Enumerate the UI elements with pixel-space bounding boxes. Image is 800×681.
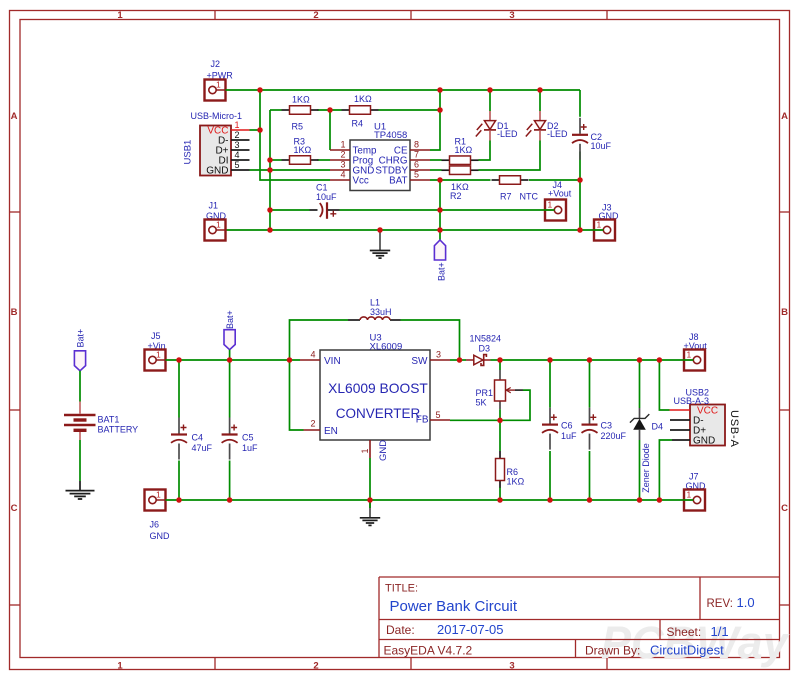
- wire: [639, 440, 641, 500]
- wire: [178, 360, 180, 418]
- svg-text:-LED: -LED: [547, 129, 568, 139]
- wire: [450, 359, 466, 361]
- resistor R1: [442, 156, 479, 165]
- svg-text:C: C: [781, 503, 788, 514]
- svg-text:USB-A: USB-A: [728, 410, 740, 448]
- junction: [547, 497, 553, 503]
- junction: [227, 497, 233, 503]
- junction: [437, 177, 443, 183]
- wire: [579, 152, 581, 231]
- svg-text:BATTERY: BATTERY: [98, 425, 139, 435]
- wire: [226, 89, 581, 91]
- svg-text:5: 5: [414, 170, 419, 180]
- svg-text:4: 4: [340, 170, 345, 180]
- svg-text:C3: C3: [601, 421, 613, 431]
- svg-text:1.0: 1.0: [737, 595, 755, 610]
- svg-text:J6: J6: [150, 520, 160, 530]
- svg-text:2: 2: [235, 130, 240, 140]
- wire: [250, 169, 331, 171]
- wire: [270, 159, 282, 161]
- junction: [497, 418, 503, 424]
- svg-text:R4: R4: [352, 119, 364, 129]
- svg-text:1: 1: [216, 220, 221, 230]
- net flag Bat+: [224, 310, 235, 349]
- junction: [657, 357, 663, 363]
- IC U3 XL6009: [300, 333, 450, 462]
- svg-text:CircuitDigest: CircuitDigest: [650, 643, 724, 658]
- svg-text:R7: R7: [500, 192, 512, 202]
- svg-text:1: 1: [548, 200, 553, 210]
- junction: [577, 227, 583, 233]
- ground: [66, 481, 95, 499]
- connector J8: [683, 350, 705, 371]
- wire: [401, 320, 460, 360]
- resistor R4: [342, 106, 379, 115]
- svg-text:10uF: 10uF: [316, 192, 337, 202]
- svg-text:1: 1: [216, 80, 221, 90]
- junction: [497, 357, 503, 363]
- svg-text:C1: C1: [316, 183, 328, 193]
- junction: [267, 167, 273, 173]
- svg-text:1: 1: [156, 490, 161, 500]
- svg-text:R2: R2: [450, 191, 462, 201]
- wire: [270, 209, 310, 211]
- svg-text:3: 3: [436, 350, 441, 360]
- wire: [226, 229, 595, 231]
- wire: [549, 451, 551, 500]
- net flag Bat+: [434, 240, 446, 281]
- svg-text:1N5824: 1N5824: [470, 334, 502, 344]
- svg-text:J2: J2: [211, 59, 221, 69]
- svg-text:5: 5: [436, 410, 441, 420]
- wire: [659, 360, 669, 410]
- svg-text:GND: GND: [693, 436, 715, 447]
- connector J1: [205, 220, 226, 241]
- svg-text:Drawn By:: Drawn By:: [585, 644, 640, 658]
- junction: [176, 497, 182, 503]
- wire: [659, 440, 672, 500]
- wire: [589, 451, 591, 500]
- svg-text:Date:: Date:: [386, 623, 415, 637]
- svg-text:1: 1: [360, 448, 370, 453]
- svg-text:4: 4: [235, 150, 240, 160]
- svg-text:1: 1: [156, 350, 161, 360]
- svg-text:1: 1: [340, 140, 345, 150]
- svg-text:GND: GND: [378, 440, 389, 461]
- svg-text:R5: R5: [292, 122, 304, 132]
- svg-text:C4: C4: [192, 433, 204, 443]
- capacitor C2: [572, 118, 612, 160]
- svg-text:VIN: VIN: [324, 356, 341, 367]
- svg-text:GND: GND: [206, 165, 228, 176]
- svg-text:J1: J1: [209, 201, 219, 211]
- connector USB2 USB-A-3: [670, 387, 741, 447]
- svg-text:7: 7: [414, 150, 419, 160]
- svg-text:USB-A-3: USB-A-3: [674, 396, 710, 406]
- svg-text:2: 2: [310, 419, 315, 429]
- wire: [229, 350, 231, 360]
- svg-text:1uF: 1uF: [242, 443, 258, 453]
- svg-text:D3: D3: [479, 343, 491, 353]
- svg-text:GND: GND: [150, 531, 171, 541]
- wire: [79, 440, 81, 481]
- junction: [267, 227, 273, 233]
- svg-text:2017-07-05: 2017-07-05: [437, 622, 504, 637]
- svg-text:C5: C5: [242, 433, 254, 443]
- wire: [579, 90, 581, 117]
- svg-text:1: 1: [117, 660, 123, 671]
- junction: [367, 497, 373, 503]
- junction: [437, 227, 443, 233]
- wire: [450, 419, 500, 421]
- svg-text:3: 3: [509, 10, 514, 21]
- junction: [257, 87, 263, 93]
- connector J4: [544, 200, 566, 221]
- svg-text:2: 2: [313, 10, 318, 21]
- junction: [547, 357, 553, 363]
- connector USB1 USB-Micro-1: [183, 111, 250, 176]
- junction: [587, 497, 593, 503]
- wire: [549, 360, 551, 408]
- wire: [270, 109, 282, 111]
- wire: [260, 90, 330, 180]
- wire: [290, 360, 304, 430]
- resistor R6: [496, 451, 505, 488]
- svg-text:5K: 5K: [476, 398, 487, 408]
- connector J6: [145, 490, 166, 511]
- svg-text:220uF: 220uF: [601, 431, 627, 441]
- svg-text:D4: D4: [652, 421, 664, 431]
- wire: [166, 359, 301, 361]
- svg-text:33uH: 33uH: [370, 307, 392, 317]
- zener diode D4: [630, 408, 663, 493]
- wire: [499, 488, 501, 501]
- junction: [377, 227, 383, 233]
- wire: [269, 110, 271, 230]
- diode D3 1N5824: [466, 334, 501, 366]
- junction: [457, 357, 463, 363]
- junction: [437, 87, 443, 93]
- connector J2: [205, 80, 226, 101]
- junction: [437, 207, 443, 213]
- svg-text:6: 6: [414, 160, 419, 170]
- svg-text:EasyEDA V4.7.2: EasyEDA V4.7.2: [384, 644, 473, 658]
- resistor R7: [492, 176, 529, 185]
- junction: [577, 177, 583, 183]
- connector J5: [145, 350, 166, 371]
- svg-text:B: B: [11, 307, 18, 318]
- junction: [657, 497, 663, 503]
- wire: [529, 179, 580, 181]
- ground: [370, 230, 390, 258]
- net flag Bat+: [74, 329, 85, 371]
- junction: [637, 357, 643, 363]
- svg-text:USB1: USB1: [183, 140, 194, 165]
- wire: [430, 179, 491, 181]
- svg-text:1uF: 1uF: [561, 431, 577, 441]
- wire: [229, 360, 231, 418]
- wire: [430, 90, 440, 150]
- svg-text:CONVERTER: CONVERTER: [336, 406, 421, 421]
- svg-text:TP4058: TP4058: [374, 130, 407, 141]
- wire: [340, 209, 546, 211]
- wire: [79, 371, 81, 402]
- junction: [487, 87, 493, 93]
- junction: [176, 357, 182, 363]
- svg-text:4: 4: [310, 350, 315, 360]
- wire: [503, 390, 531, 420]
- svg-text:1KΩ: 1KΩ: [354, 94, 372, 104]
- inductor L1: [348, 298, 401, 321]
- svg-text:1KΩ: 1KΩ: [292, 95, 310, 105]
- LED D2: [526, 90, 568, 141]
- wire: [379, 109, 441, 111]
- wire: [229, 461, 231, 501]
- svg-text:2: 2: [340, 150, 345, 160]
- svg-text:PR1: PR1: [476, 388, 494, 398]
- IC U1 TP4058: [330, 122, 430, 191]
- svg-text:3: 3: [509, 660, 514, 671]
- svg-text:Sheet:: Sheet:: [667, 625, 702, 639]
- resistor R2: [442, 166, 479, 175]
- junction: [257, 127, 263, 133]
- junction: [327, 107, 333, 113]
- connector J3: [593, 220, 615, 241]
- wire: [250, 129, 261, 131]
- wire: [479, 141, 541, 171]
- svg-text:Bat+: Bat+: [76, 329, 86, 348]
- wire: [639, 360, 641, 408]
- svg-text:3: 3: [235, 140, 240, 150]
- svg-text:NTC: NTC: [520, 192, 539, 202]
- svg-text:XL6009: XL6009: [370, 341, 403, 352]
- svg-text:1: 1: [235, 120, 240, 130]
- wire: [166, 499, 685, 501]
- battery BAT1: [64, 402, 138, 441]
- LED D1: [476, 90, 518, 141]
- svg-text:-LED: -LED: [497, 129, 518, 139]
- svg-text:1/1: 1/1: [711, 624, 729, 639]
- wire: [178, 461, 180, 501]
- wire: [430, 159, 442, 161]
- svg-text:5: 5: [235, 160, 240, 170]
- wire: [439, 180, 441, 240]
- wire: [491, 359, 501, 361]
- svg-text:3: 3: [340, 160, 345, 170]
- junction: [437, 107, 443, 113]
- junction: [227, 357, 233, 363]
- capacitor C5: [222, 418, 258, 460]
- wire: [318, 109, 342, 111]
- svg-text:BAT: BAT: [389, 176, 407, 187]
- svg-text:1: 1: [687, 490, 692, 500]
- svg-text:BAT1: BAT1: [98, 415, 120, 425]
- svg-text:R6: R6: [507, 467, 519, 477]
- svg-text:Vcc: Vcc: [353, 176, 369, 187]
- resistor R3: [282, 156, 319, 165]
- junction: [587, 357, 593, 363]
- junction: [267, 157, 273, 163]
- junction: [497, 497, 503, 503]
- svg-text:1KΩ: 1KΩ: [455, 145, 473, 155]
- svg-text:Bat+: Bat+: [225, 310, 235, 329]
- svg-text:Zener Diode: Zener Diode: [641, 443, 651, 493]
- svg-text:Bat+: Bat+: [436, 262, 446, 281]
- junction: [637, 497, 643, 503]
- svg-text:A: A: [11, 111, 18, 122]
- svg-text:J5: J5: [151, 331, 161, 341]
- connector J7: [683, 490, 705, 511]
- svg-text:1: 1: [597, 220, 602, 230]
- svg-text:EN: EN: [324, 426, 338, 437]
- svg-text:REV:: REV:: [707, 598, 733, 610]
- svg-text:2: 2: [313, 660, 318, 671]
- svg-text:B: B: [781, 307, 788, 318]
- wire: [369, 458, 371, 500]
- ground: [360, 500, 380, 525]
- wire: [318, 159, 331, 161]
- potentiometer PR1: [476, 360, 524, 409]
- wire: [329, 110, 331, 150]
- svg-text:C: C: [11, 503, 18, 514]
- svg-text:1KΩ: 1KΩ: [507, 477, 525, 487]
- svg-text:1: 1: [687, 350, 692, 360]
- junction: [267, 207, 273, 213]
- wire: [589, 360, 591, 408]
- capacitor C6: [542, 408, 577, 450]
- wire: [430, 169, 442, 171]
- svg-text:C6: C6: [561, 421, 573, 431]
- wire: [290, 320, 349, 360]
- junction: [287, 357, 293, 363]
- svg-text:L1: L1: [370, 298, 380, 308]
- svg-text:XL6009 BOOST: XL6009 BOOST: [328, 381, 428, 396]
- svg-text:SW: SW: [411, 356, 428, 367]
- capacitor C4: [171, 418, 213, 460]
- resistor R5: [282, 106, 319, 115]
- wire: [369, 500, 371, 508]
- svg-text:47uF: 47uF: [192, 443, 213, 453]
- svg-text:1KΩ: 1KΩ: [294, 145, 312, 155]
- svg-text:USB-Micro-1: USB-Micro-1: [191, 111, 243, 121]
- svg-text:1: 1: [117, 10, 123, 21]
- svg-text:A: A: [781, 111, 788, 122]
- svg-text:TITLE:: TITLE:: [385, 583, 418, 595]
- svg-text:10uF: 10uF: [591, 141, 612, 151]
- wire: [499, 409, 501, 451]
- wire: [500, 359, 684, 361]
- wire: [479, 141, 491, 161]
- capacitor C3: [582, 408, 627, 450]
- svg-text:8: 8: [414, 140, 419, 150]
- svg-text:+Vout: +Vout: [548, 189, 572, 199]
- capacitor C1: [310, 183, 340, 219]
- svg-text:Power Bank Circuit: Power Bank Circuit: [390, 598, 518, 615]
- junction: [537, 87, 543, 93]
